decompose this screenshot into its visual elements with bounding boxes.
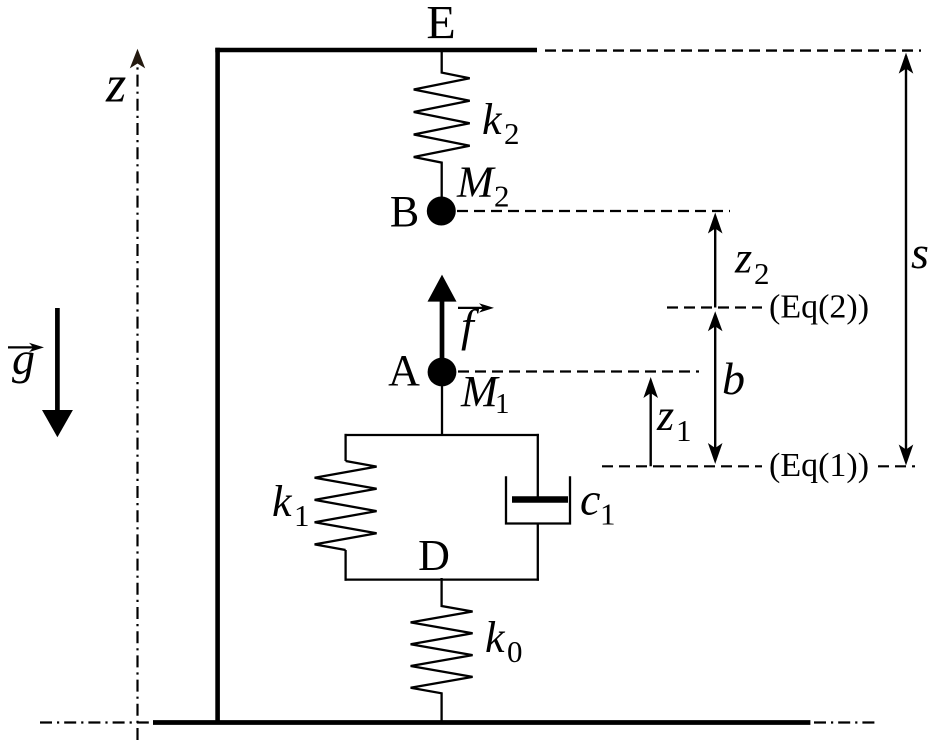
svg-text:E: E [426,0,455,50]
spring k1 branch [344,434,346,461]
Eq(2) dashed level line [667,306,762,308]
svg-text:2: 2 [494,179,510,214]
svg-text:k: k [482,95,503,144]
dimension z1 arrow [650,381,652,467]
svg-text:s: s [911,227,929,278]
ground line [153,720,810,725]
svg-text:2: 2 [754,256,770,291]
svg-text:A: A [388,346,420,395]
damper c1 rod [537,434,539,502]
ground dash-dot left [40,721,153,723]
svg-text:1: 1 [495,388,510,420]
dimension s arrow [905,56,907,460]
dashed reference line from B [457,210,730,212]
spring k2 [414,52,470,197]
svg-text:0: 0 [507,634,523,669]
svg-text:(Eq(1)): (Eq(1)) [769,447,869,484]
svg-text:M: M [460,367,500,416]
frame top bar [215,48,537,53]
Eq(1) dashed level line [602,465,762,467]
mass B (M2) [427,197,456,226]
svg-text:2: 2 [504,116,520,151]
svg-text:g: g [12,333,35,384]
svg-text:z: z [734,234,752,283]
gravity vector g arrow [55,308,60,412]
Eq(1) dashed continuation right [878,465,915,467]
top reference dashed line [545,49,921,51]
parallel box bottom bar [345,578,540,580]
spring k0 [411,578,473,722]
link A to parallel box [441,386,443,436]
dimension z2 arrow [714,216,716,308]
z axis dash-dot line [136,64,138,740]
svg-text:k: k [272,477,293,526]
svg-text:z: z [105,56,126,113]
svg-text:c: c [580,474,600,525]
damper cylinder cup [506,476,570,523]
dashed reference line from A [458,370,699,372]
svg-text:D: D [418,531,450,580]
svg-text:z: z [656,391,674,440]
z axis arrowhead [130,49,145,69]
svg-text:B: B [390,187,419,236]
parallel box top bar [345,434,540,436]
dimension b arrow [714,317,716,461]
damper piston bar [512,496,568,503]
svg-text:1: 1 [676,413,692,448]
damper lower rod [537,524,539,581]
force f arrow [440,299,445,372]
svg-text:k: k [485,613,506,662]
svg-text:b: b [722,353,745,404]
frame left wall [215,48,220,723]
ground dash-dot right [814,721,875,723]
svg-text:1: 1 [294,498,310,533]
svg-text:1: 1 [600,497,616,532]
svg-text:M: M [456,158,496,207]
svg-text:(Eq(2)): (Eq(2)) [769,288,869,325]
mass A (M1) [428,358,457,387]
